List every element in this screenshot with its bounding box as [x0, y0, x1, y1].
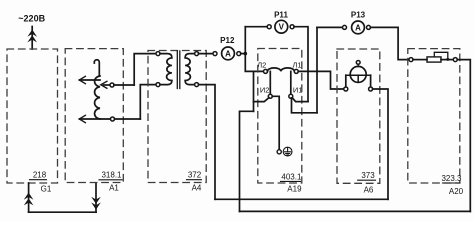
node junction P11/P12 [244, 52, 248, 56]
terminal resistor left [409, 58, 413, 62]
wire lower tap out [114, 118, 140, 120]
lamp EL1 contact bar [346, 74, 371, 76]
terminal I2 [268, 94, 272, 98]
wire bottom link G1 to A1 [29, 211, 96, 213]
wire ~220V drop to G1 [31, 27, 33, 50]
wire resistor left lead [413, 59, 427, 61]
svg-text:318.1: 318.1 [101, 171, 122, 180]
terminal lower tap [111, 117, 115, 121]
connector arrow (down) into bottom wire from A1 [91, 197, 101, 210]
CT primary winding [267, 68, 294, 71]
wire I1 drop to P13 [292, 98, 318, 113]
wire I2 return to bottom rail [240, 111, 254, 211]
svg-text:Л2: Л2 [257, 61, 266, 70]
autotransformer top lead hook [94, 60, 99, 76]
wire I2 hook to L2 node [254, 98, 269, 102]
ammeter P13 [351, 10, 366, 19]
lamp EL1 dot stem [357, 64, 359, 66]
lamp EL1 center stem [357, 75, 359, 82]
wire transformer secondary top to P12 [199, 53, 214, 55]
ground earth symbol [283, 147, 292, 156]
svg-text:G1: G1 [41, 185, 52, 194]
wire transformer secondary bottom return [199, 85, 216, 200]
wire riser P11 left / drop to L2 [245, 27, 263, 72]
module G1 box (218 power source) [7, 49, 58, 183]
transformer T2 primary winding [160, 54, 172, 85]
svg-text:А6: А6 [364, 186, 374, 195]
lamp EL1 bulb [350, 66, 366, 82]
wiper arrow [104, 84, 111, 86]
wire bottom rail lamp/transformer [215, 198, 388, 200]
terminal resistor right [453, 58, 457, 62]
svg-text:~220В: ~220В [18, 14, 45, 24]
transformer T2 secondary winding [185, 54, 195, 85]
svg-text:Р13: Р13 [351, 10, 366, 19]
wire CT secondary lead I2 [269, 71, 271, 94]
node ~220V supply label [18, 14, 45, 24]
wire resistor right lead [441, 59, 453, 61]
label L2 [257, 61, 266, 70]
wire P12 to junction [241, 53, 246, 55]
wire CT secondary lead I1 [290, 71, 292, 94]
module A19 box (403.1 current transformer) [258, 49, 302, 184]
label A6 [364, 186, 374, 195]
svg-text:И2: И2 [260, 86, 270, 95]
terminal I1 [289, 94, 293, 98]
terminal ground [277, 150, 281, 154]
svg-text:373: 373 [361, 171, 375, 180]
svg-text:323.3: 323.3 [441, 174, 462, 183]
wire bottom rail secondary return [240, 210, 471, 212]
ammeter P12 [220, 36, 235, 45]
label A19 [287, 184, 302, 193]
svg-text:Л1: Л1 [292, 61, 301, 70]
wire P13 left [317, 26, 343, 28]
svg-text:218: 218 [33, 171, 47, 180]
terminal lamp left [344, 87, 348, 91]
label 403.1 [281, 172, 302, 181]
svg-text:Р12: Р12 [220, 36, 235, 45]
svg-text:403.1: 403.1 [281, 172, 302, 181]
module A6 box (373 lamp) [337, 49, 380, 183]
autotransformer T1 coil [95, 76, 100, 119]
wire resistor out to right rail [457, 60, 470, 212]
resistor R1 body [427, 57, 441, 62]
terminal L1 [294, 69, 298, 73]
transformer T2 terminal right bottom [195, 83, 199, 87]
label A4 [192, 184, 202, 193]
transformer T2 terminal left bottom [156, 83, 160, 87]
label L1 [292, 61, 301, 70]
label G1 [41, 185, 52, 194]
wire G1 bottom connector [28, 183, 30, 212]
arrow tap upper [80, 79, 101, 81]
label 372 [188, 171, 202, 180]
terminal wiper [110, 83, 114, 87]
label 218 [33, 171, 47, 180]
svg-text:А1: А1 [109, 184, 119, 193]
connector arrow (up) into mains [27, 30, 37, 43]
transformer T2 core [176, 51, 178, 89]
wire P13 right to resistor [370, 27, 409, 59]
wire link riser at 253.5 [253, 71, 255, 111]
wire transformer primary bottom return [140, 85, 156, 119]
connector arrow (up) into G1 [24, 193, 34, 206]
svg-text:V: V [279, 23, 285, 32]
arrow tap lower [80, 118, 111, 120]
node tap junction [446, 58, 449, 61]
svg-text:А19: А19 [287, 184, 302, 193]
svg-text:А20: А20 [449, 187, 464, 196]
wire ground lead from I2 [272, 96, 279, 150]
wire A1 bottom connector [95, 183, 97, 212]
svg-text:A: A [225, 49, 231, 58]
label A20 [449, 187, 464, 196]
wire I1 hook to P11 [292, 98, 308, 102]
svg-text:Р11: Р11 [274, 10, 288, 19]
resistor R1 tap link [434, 52, 448, 58]
module A20 box (323.3 resistor) [408, 49, 460, 183]
label I2 [260, 86, 270, 95]
wire lamp right to bottom rail [373, 89, 389, 199]
voltmeter P11 [274, 10, 288, 19]
label I1 [293, 86, 303, 95]
wire P11 left [245, 26, 267, 28]
label 318.1 [101, 171, 122, 180]
transformer T2 terminal left top [156, 52, 160, 56]
wire wiper riser to transformer primary top [134, 54, 156, 85]
wire wiper out [114, 84, 134, 86]
svg-text:A: A [355, 23, 361, 32]
lamp EL1 top terminal dot [356, 61, 360, 65]
wire P11 right drop to I1 hook [294, 27, 308, 102]
transformer T2 terminal right top [195, 52, 199, 56]
wire L1 out to lamp [298, 71, 344, 89]
label 323.3 [441, 174, 462, 183]
svg-text:А4: А4 [192, 184, 202, 193]
module A1 box (318.1 autotransformer) [65, 49, 123, 183]
label 373 [361, 171, 375, 180]
module A4 box (372 transformer) [148, 51, 206, 183]
svg-text:И1: И1 [293, 86, 303, 95]
svg-text:372: 372 [188, 171, 202, 180]
lamp EL1 legs [345, 75, 347, 87]
terminal L2 [264, 69, 268, 73]
label A1 [109, 184, 119, 193]
terminal lamp right [369, 87, 373, 91]
wire P13 left riser [316, 27, 318, 112]
